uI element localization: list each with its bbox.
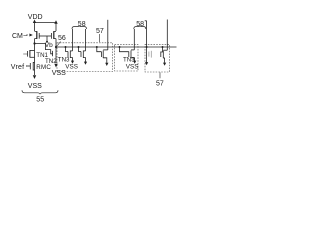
- svg-text:57: 57: [96, 28, 104, 35]
- svg-text:CM−: CM−: [12, 33, 27, 40]
- svg-text:Vref: Vref: [11, 64, 25, 71]
- svg-text:TN3: TN3: [123, 57, 135, 64]
- svg-text:55: 55: [36, 97, 44, 104]
- svg-text:57: 57: [156, 81, 164, 88]
- svg-text:56: 56: [58, 35, 66, 42]
- svg-text:VSS: VSS: [65, 64, 78, 71]
- svg-text:VSS: VSS: [126, 64, 139, 71]
- svg-text:RMC: RMC: [36, 64, 51, 71]
- svg-text:VDD: VDD: [28, 14, 43, 21]
- svg-text:VSS: VSS: [52, 70, 66, 77]
- svg-text:VSS: VSS: [28, 83, 42, 90]
- svg-text:58: 58: [78, 21, 86, 28]
- svg-text:58: 58: [136, 21, 144, 28]
- svg-text:Vb: Vb: [45, 42, 53, 49]
- svg-text:TN3: TN3: [58, 56, 70, 63]
